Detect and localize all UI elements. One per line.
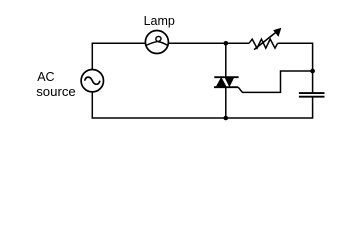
AC source V1 circle xyxy=(81,70,103,92)
node junction dot right (gate branch to right wire) xyxy=(310,69,315,74)
label AC source xyxy=(37,71,54,83)
wire top middle (lamp to rheostat) xyxy=(168,42,249,44)
lamp DS1 filament xyxy=(146,36,168,45)
rheostat R1 zigzag xyxy=(249,39,278,48)
node junction dot bottom (triac to bottom wire) xyxy=(224,116,229,121)
triac Q1 left triangle xyxy=(216,77,227,87)
label Lamp xyxy=(144,15,175,27)
node junction dot top (triac to top wire) xyxy=(224,41,229,46)
lamp DS1 circle xyxy=(145,31,168,54)
rheostat R1 arrow shaft xyxy=(254,32,276,49)
capacitor C1 bottom plate xyxy=(299,96,325,98)
wire top left (corner to lamp) xyxy=(92,43,145,69)
rheostat R1 arrowhead xyxy=(274,29,281,36)
triac Q1 right triangle xyxy=(224,77,234,87)
triac Q1 gate wire xyxy=(238,71,312,92)
triac Q1 top bar MT2 xyxy=(214,76,238,78)
triac Q1 bottom bar MT1 xyxy=(214,86,238,88)
wire top right (rheostat to right corner) xyxy=(278,43,313,92)
wire triac branch vertical xyxy=(225,43,227,118)
AC source V1 sine wave xyxy=(85,77,100,84)
capacitor C1 top plate xyxy=(299,92,325,94)
wire bottom xyxy=(92,92,312,118)
